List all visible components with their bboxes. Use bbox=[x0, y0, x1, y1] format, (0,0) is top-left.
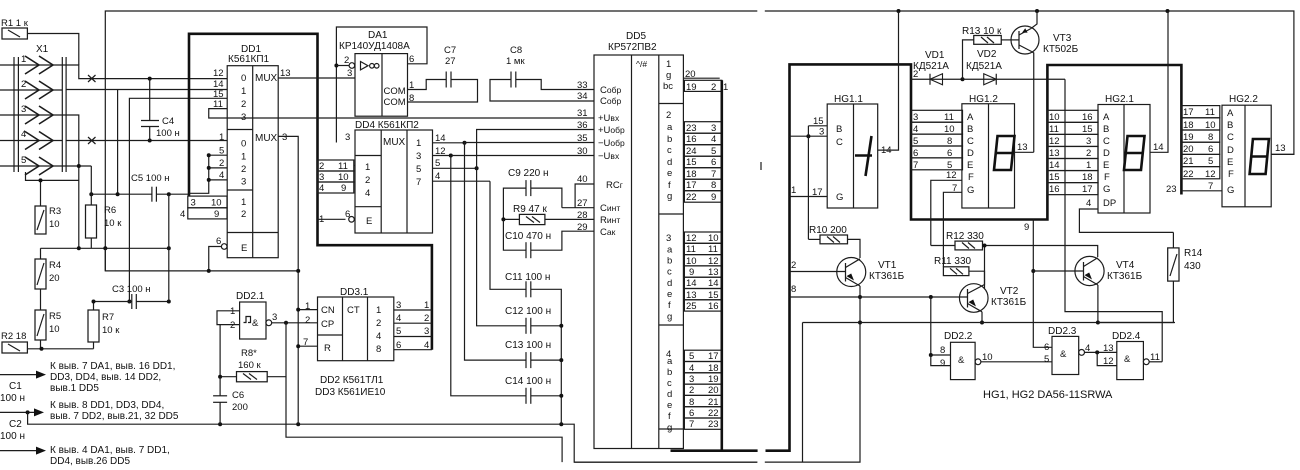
svg-text:VT3: VT3 bbox=[1053, 33, 1072, 44]
wire X1 pin4 to DD1 with break mark bbox=[66, 137, 227, 144]
svg-text:G: G bbox=[967, 185, 974, 196]
svg-text:3: 3 bbox=[345, 132, 350, 143]
HG1.1 pin 17 bbox=[790, 185, 828, 198]
svg-text:5: 5 bbox=[689, 351, 694, 362]
svg-text:F: F bbox=[968, 172, 974, 183]
svg-text:9: 9 bbox=[341, 183, 346, 194]
svg-text:10: 10 bbox=[686, 256, 697, 267]
svg-text:R2 18: R2 18 bbox=[1, 331, 26, 342]
capacitor C3 bbox=[92, 284, 171, 309]
wire VT4 base bbox=[1033, 270, 1083, 272]
chip DD3.1 counter bbox=[303, 287, 394, 361]
svg-text:2: 2 bbox=[344, 55, 349, 66]
top rail right segment bbox=[765, 9, 1294, 154]
svg-text:31: 31 bbox=[577, 108, 588, 119]
wire net to R6 bbox=[90, 166, 92, 205]
svg-text:К выв. 8 DD1, DD3, DD4,: К выв. 8 DD1, DD3, DD4, bbox=[50, 400, 164, 411]
gate DD2.1 bbox=[217, 291, 318, 339]
svg-text:c: c bbox=[667, 145, 672, 156]
svg-text:10: 10 bbox=[1049, 112, 1060, 123]
resistor R14 bbox=[1098, 232, 1203, 322]
svg-text:1: 1 bbox=[230, 306, 235, 317]
rail y462 right part bbox=[765, 323, 860, 463]
node output arrow 2 bbox=[0, 400, 179, 422]
DD1 net box 3-10 bbox=[188, 196, 227, 208]
svg-text:КТ502Б: КТ502Б bbox=[1043, 44, 1079, 55]
svg-text:13: 13 bbox=[1017, 142, 1028, 153]
svg-text:D: D bbox=[1103, 148, 1110, 159]
svg-text:8: 8 bbox=[376, 344, 381, 355]
svg-text:21: 21 bbox=[708, 397, 719, 408]
DD5 section4 segments bbox=[666, 349, 673, 434]
transistor VT4 bbox=[1075, 256, 1143, 285]
capacitor C13 bbox=[505, 340, 563, 368]
svg-text:2: 2 bbox=[689, 385, 694, 396]
svg-text:X1: X1 bbox=[36, 44, 49, 55]
svg-text:6: 6 bbox=[711, 157, 716, 168]
svg-text:12: 12 bbox=[1205, 169, 1216, 180]
svg-text:100 н: 100 н bbox=[0, 431, 25, 442]
svg-text:DD3, DD4, выв. 14 DD2,: DD3, DD4, выв. 14 DD2, bbox=[50, 372, 161, 383]
svg-text:15: 15 bbox=[1049, 172, 1060, 183]
svg-text:G: G bbox=[1103, 184, 1110, 195]
wire C5 to C3 vertical bbox=[168, 194, 170, 301]
svg-text:VT4: VT4 bbox=[1116, 260, 1135, 271]
svg-text:C: C bbox=[1227, 132, 1234, 143]
svg-text:13: 13 bbox=[708, 267, 719, 278]
svg-text:C12 100 н: C12 100 н bbox=[505, 306, 551, 317]
svg-text:6: 6 bbox=[396, 340, 401, 351]
DD5 left pin labels bbox=[577, 80, 625, 238]
svg-text:19: 19 bbox=[686, 82, 697, 93]
svg-text:R6: R6 bbox=[104, 205, 116, 216]
svg-text:COM: COM bbox=[384, 97, 406, 108]
svg-text:7: 7 bbox=[711, 169, 716, 180]
thick bus DD5 right bbox=[671, 80, 758, 450]
wire -Uvx pin30 bbox=[451, 155, 594, 157]
HG2.2 pin 7 G bbox=[1166, 181, 1222, 195]
svg-text:КТ361Б: КТ361Б bbox=[869, 271, 905, 282]
svg-text:3: 3 bbox=[424, 326, 429, 337]
svg-text:C6: C6 bbox=[232, 390, 244, 401]
svg-text:10: 10 bbox=[708, 233, 719, 244]
HG1.1 pin 14 bbox=[878, 11, 899, 156]
svg-text:5: 5 bbox=[913, 136, 918, 147]
wire junction vertical to C5 bbox=[117, 90, 119, 194]
DD5 section3 segments bbox=[666, 233, 673, 323]
svg-text:12: 12 bbox=[435, 146, 446, 157]
svg-text:25: 25 bbox=[686, 301, 697, 312]
svg-text:20: 20 bbox=[708, 385, 719, 396]
svg-text:D: D bbox=[1227, 145, 1234, 156]
svg-text:1: 1 bbox=[416, 138, 421, 149]
wire R6 bottom bbox=[90, 238, 92, 248]
svg-text:1: 1 bbox=[1086, 160, 1091, 171]
HG1.2 pin 7 G bbox=[943, 183, 962, 267]
svg-text:DD3 К561ИЕ10: DD3 К561ИЕ10 bbox=[315, 387, 386, 398]
wire DD1 mux2 output3 bbox=[278, 136, 300, 424]
diode VD2 bbox=[963, 49, 1066, 85]
svg-text:2: 2 bbox=[305, 315, 310, 326]
capacitor C2 label bbox=[0, 419, 25, 442]
svg-text:2: 2 bbox=[376, 318, 381, 329]
svg-text:C: C bbox=[967, 136, 974, 147]
svg-text:C2: C2 bbox=[9, 419, 22, 430]
svg-text:9: 9 bbox=[214, 209, 219, 220]
thick bus break continuation bbox=[766, 64, 1182, 450]
svg-text:DD2.2: DD2.2 bbox=[944, 331, 973, 342]
svg-text:10 к: 10 к bbox=[102, 325, 120, 336]
svg-text:CT: CT bbox=[347, 305, 360, 316]
resistor R4 bbox=[35, 248, 61, 310]
svg-text:35: 35 bbox=[577, 133, 588, 144]
svg-text:R11 330: R11 330 bbox=[934, 256, 972, 267]
transistor VT1 bbox=[837, 258, 905, 287]
svg-text:12: 12 bbox=[1049, 136, 1060, 147]
svg-text:11: 11 bbox=[708, 244, 718, 255]
wire DD4 out 4 bbox=[433, 171, 491, 182]
svg-text:34: 34 bbox=[577, 91, 588, 102]
svg-text:10: 10 bbox=[1205, 120, 1216, 131]
wire net14 to C13 bbox=[465, 143, 527, 360]
svg-text:C13 100 н: C13 100 н bbox=[505, 340, 551, 351]
svg-text:11: 11 bbox=[686, 244, 696, 255]
svg-text:14: 14 bbox=[1049, 160, 1060, 171]
svg-text:1: 1 bbox=[219, 132, 224, 143]
display HG2.1 bbox=[1098, 94, 1150, 213]
svg-text:MUX: MUX bbox=[255, 73, 278, 84]
DD1 section2 tie chain bbox=[189, 153, 227, 193]
svg-text:A: A bbox=[1227, 108, 1234, 119]
svg-text:выв.1 DD5: выв.1 DD5 bbox=[50, 383, 99, 394]
HG2.2 glyph bbox=[1250, 139, 1269, 174]
wire R3 top bbox=[26, 172, 79, 206]
svg-text:13: 13 bbox=[280, 68, 291, 79]
svg-text:4: 4 bbox=[180, 209, 185, 220]
svg-text:B: B bbox=[1103, 124, 1109, 135]
svg-text:0: 0 bbox=[241, 139, 246, 150]
svg-text:C14 100 н: C14 100 н bbox=[505, 376, 551, 387]
svg-text:C: C bbox=[1103, 136, 1110, 147]
DD5 section1 digit bbox=[663, 59, 728, 93]
svg-text:5: 5 bbox=[435, 158, 440, 169]
DD4 net box 3-10 bbox=[318, 171, 354, 183]
svg-text:2: 2 bbox=[913, 69, 918, 80]
svg-text:выв. 7 DD2, выв.21, 32 DD5: выв. 7 DD2, выв.21, 32 DD5 bbox=[50, 411, 179, 422]
svg-text:3: 3 bbox=[711, 123, 716, 134]
svg-text:12: 12 bbox=[708, 256, 719, 267]
svg-text:11: 11 bbox=[1049, 124, 1059, 135]
X1 pin 4 bbox=[0, 129, 62, 150]
svg-text:VT1: VT1 bbox=[878, 260, 897, 271]
svg-text:9: 9 bbox=[689, 267, 694, 278]
svg-text:4: 4 bbox=[424, 340, 429, 351]
wire R1 right to X1 pin1 bbox=[27, 34, 78, 66]
wire R2 row bbox=[27, 347, 93, 351]
svg-text:27: 27 bbox=[445, 56, 456, 67]
svg-text:10: 10 bbox=[49, 219, 60, 230]
svg-text:2: 2 bbox=[666, 110, 671, 121]
svg-text:f: f bbox=[668, 411, 671, 422]
resistor R12 bbox=[931, 231, 1098, 257]
svg-text:1: 1 bbox=[376, 305, 381, 316]
svg-text:4: 4 bbox=[21, 129, 26, 140]
svg-text:7: 7 bbox=[913, 160, 918, 171]
svg-text:a: a bbox=[667, 122, 673, 133]
svg-text:3: 3 bbox=[347, 68, 352, 79]
wire VT2 emitter down bbox=[980, 312, 984, 325]
HG2.1 pin boxes bbox=[1047, 110, 1098, 195]
svg-text:DD2.4: DD2.4 bbox=[1112, 331, 1141, 342]
transistor VT2 bbox=[959, 244, 1026, 313]
svg-text:8: 8 bbox=[689, 397, 694, 408]
svg-text:17: 17 bbox=[708, 351, 719, 362]
svg-text:13: 13 bbox=[1275, 143, 1286, 154]
svg-text:КТ361Б: КТ361Б bbox=[1107, 271, 1143, 282]
svg-text:d: d bbox=[667, 278, 672, 289]
resistor R3 bbox=[35, 206, 61, 234]
svg-text:e: e bbox=[667, 400, 672, 411]
svg-text:b: b bbox=[667, 134, 672, 145]
wire DD4 out 5 bbox=[433, 158, 479, 170]
DD4 net box 2-11 bbox=[318, 160, 356, 172]
svg-text:HG2.1: HG2.1 bbox=[1105, 94, 1134, 105]
svg-text:^/#: ^/# bbox=[636, 59, 647, 69]
svg-text:B: B bbox=[836, 124, 842, 135]
svg-text:8: 8 bbox=[711, 180, 716, 191]
ground rail y424 bbox=[28, 412, 758, 462]
svg-text:R1 1 к: R1 1 к bbox=[1, 18, 29, 29]
svg-text:8: 8 bbox=[940, 345, 945, 356]
svg-text:К выв. 7 DA1, выв. 16 DD1,: К выв. 7 DA1, выв. 16 DD1, bbox=[50, 361, 175, 372]
chip DD5 ADC bbox=[594, 31, 683, 449]
svg-text:3: 3 bbox=[689, 374, 694, 385]
wire DD1 pin15 bbox=[129, 98, 227, 301]
svg-text:1: 1 bbox=[241, 197, 246, 208]
svg-text:3: 3 bbox=[396, 300, 401, 311]
svg-text:3: 3 bbox=[416, 151, 421, 162]
resistor R8 bbox=[218, 321, 286, 381]
HG1.2 pin 13 bbox=[1015, 142, 1034, 153]
X1 pin 2 bbox=[0, 79, 62, 99]
wire DD3.1 out 3 bbox=[394, 326, 432, 337]
svg-text:3: 3 bbox=[282, 132, 287, 143]
svg-text:DP: DP bbox=[1103, 198, 1116, 209]
svg-text:14: 14 bbox=[435, 133, 446, 144]
svg-text:18: 18 bbox=[1183, 120, 1194, 131]
resistor R13 bbox=[962, 26, 1013, 79]
svg-text:2: 2 bbox=[365, 175, 370, 186]
svg-text:b: b bbox=[667, 367, 672, 378]
svg-text:DD2.3: DD2.3 bbox=[1048, 326, 1077, 337]
svg-text:4: 4 bbox=[376, 331, 381, 342]
HG1.1 pin 15 bbox=[808, 116, 827, 127]
HG2.2 pin 13 bbox=[1271, 143, 1294, 154]
svg-text:3: 3 bbox=[913, 112, 918, 123]
svg-text:R3: R3 bbox=[49, 206, 61, 217]
svg-text:C7: C7 bbox=[444, 45, 456, 56]
svg-text:DD4, выв.26 DD5: DD4, выв.26 DD5 bbox=[50, 456, 130, 467]
svg-text:+Uобр: +Uобр bbox=[598, 125, 625, 136]
svg-text:3: 3 bbox=[1086, 136, 1091, 147]
svg-text:11: 11 bbox=[944, 112, 954, 123]
svg-text:Rинт: Rинт bbox=[600, 215, 620, 226]
svg-text:bc: bc bbox=[663, 81, 673, 92]
svg-text:12: 12 bbox=[213, 68, 224, 79]
svg-text:18: 18 bbox=[1082, 172, 1093, 183]
svg-text:5: 5 bbox=[1044, 354, 1049, 365]
svg-text:6: 6 bbox=[1044, 342, 1049, 353]
svg-text:R5: R5 bbox=[49, 311, 61, 322]
svg-text:1: 1 bbox=[424, 300, 429, 311]
svg-text:e: e bbox=[667, 168, 672, 179]
svg-text:100 н: 100 н bbox=[0, 393, 25, 404]
display HG1.2 bbox=[962, 94, 1015, 208]
svg-text:COM: COM bbox=[384, 86, 406, 97]
svg-text:12: 12 bbox=[946, 170, 957, 181]
svg-text:c: c bbox=[667, 378, 672, 389]
capacitor C10 bbox=[503, 219, 593, 258]
svg-text:R4: R4 bbox=[49, 260, 61, 271]
svg-text:430: 430 bbox=[1184, 261, 1201, 272]
wire X1 pin1 to DD1 pin12 with break mark bbox=[62, 65, 227, 82]
HG1.2 pin 12 F bbox=[931, 170, 962, 246]
bus continuation tick bbox=[760, 162, 762, 170]
svg-text:40: 40 bbox=[577, 174, 588, 185]
svg-text:4: 4 bbox=[1086, 198, 1091, 209]
resistor R1 bbox=[1, 18, 29, 39]
svg-text:23: 23 bbox=[708, 419, 719, 430]
svg-text:E: E bbox=[1227, 157, 1233, 168]
svg-text:RCг: RCг bbox=[606, 180, 623, 191]
wire DD3.1 CN R ties bbox=[296, 308, 317, 349]
svg-text:VD2: VD2 bbox=[977, 49, 997, 60]
svg-text:КР572ПВ2: КР572ПВ2 bbox=[608, 42, 657, 53]
svg-text:3: 3 bbox=[666, 233, 671, 244]
svg-text:Сак: Сак bbox=[600, 227, 616, 238]
svg-text:10 к: 10 к bbox=[104, 218, 122, 229]
svg-text:21: 21 bbox=[1183, 156, 1194, 167]
svg-text:g: g bbox=[667, 423, 672, 434]
svg-text:17: 17 bbox=[1183, 107, 1194, 118]
svg-text:18: 18 bbox=[708, 363, 719, 374]
svg-text:22: 22 bbox=[686, 192, 697, 203]
svg-text:20: 20 bbox=[49, 273, 60, 284]
gate DD2.4 bbox=[1097, 331, 1162, 380]
svg-text:10: 10 bbox=[338, 172, 349, 183]
wire VT1 emitter down bbox=[858, 286, 862, 325]
DD5 section4 pin boxes bbox=[684, 350, 721, 430]
node output arrow 1 bbox=[0, 361, 175, 394]
resistor R11 bbox=[934, 256, 985, 289]
svg-text:14: 14 bbox=[686, 278, 697, 289]
svg-text:1: 1 bbox=[241, 86, 246, 97]
svg-text:HG1.1: HG1.1 bbox=[834, 94, 863, 105]
svg-text:8: 8 bbox=[791, 284, 796, 295]
svg-text:2: 2 bbox=[230, 320, 235, 331]
svg-text:R: R bbox=[324, 343, 331, 354]
svg-text:C5 100 н: C5 100 н bbox=[131, 173, 170, 184]
bottom rail thin right bbox=[574, 461, 757, 463]
svg-text:16: 16 bbox=[1049, 184, 1060, 195]
svg-text:B: B bbox=[967, 124, 973, 135]
wire DD1 pin11 +Uvx net bbox=[209, 109, 594, 118]
wire DD1 pin13 to DA1 pin3 bbox=[278, 77, 355, 79]
svg-text:4: 4 bbox=[689, 363, 694, 374]
svg-text:24: 24 bbox=[686, 146, 697, 157]
HG2.1 pin 14 bbox=[1150, 11, 1168, 153]
svg-text:d: d bbox=[667, 157, 672, 168]
svg-text:R10 200: R10 200 bbox=[809, 225, 847, 236]
resistor R7 bbox=[88, 302, 120, 349]
svg-text:9: 9 bbox=[940, 358, 945, 369]
svg-text:E: E bbox=[1103, 160, 1109, 171]
svg-text:C1: C1 bbox=[9, 381, 22, 392]
svg-text:f: f bbox=[668, 180, 671, 191]
svg-text:1: 1 bbox=[666, 59, 671, 70]
svg-text:1: 1 bbox=[305, 301, 310, 312]
svg-text:14: 14 bbox=[1153, 142, 1164, 153]
wire X1 pin3 tap bbox=[62, 115, 79, 248]
svg-text:A: A bbox=[967, 112, 974, 123]
svg-text:4: 4 bbox=[913, 124, 918, 135]
capacitor C7 bbox=[408, 45, 478, 102]
svg-text:30: 30 bbox=[577, 146, 588, 157]
svg-text:5: 5 bbox=[1208, 156, 1213, 167]
HG2.1 glyph bbox=[1124, 136, 1145, 170]
svg-text:27: 27 bbox=[577, 198, 588, 209]
wire net5 to C12 bbox=[477, 168, 526, 325]
svg-text:e: e bbox=[667, 289, 672, 300]
wire -Uobr pin35 bbox=[465, 142, 594, 144]
svg-text:1: 1 bbox=[791, 185, 796, 196]
svg-text:HG1, HG2 DA56-11SRWA: HG1, HG2 DA56-11SRWA bbox=[983, 389, 1113, 401]
wire left drop to bottom rail bbox=[802, 323, 804, 463]
svg-text:0: 0 bbox=[241, 73, 246, 84]
svg-text:9: 9 bbox=[1024, 222, 1029, 233]
svg-text:E: E bbox=[241, 243, 247, 254]
svg-text:20: 20 bbox=[1183, 144, 1194, 155]
svg-text:3: 3 bbox=[191, 198, 196, 209]
svg-text:Собр: Собр bbox=[600, 96, 621, 107]
svg-text:33: 33 bbox=[577, 80, 588, 91]
chip DD4 bbox=[345, 120, 433, 233]
svg-text:CP: CP bbox=[321, 319, 334, 330]
HG2.2 pin boxes bbox=[1181, 106, 1219, 180]
wire osc to bottom rail bbox=[286, 377, 562, 462]
svg-text:G: G bbox=[1227, 185, 1234, 196]
wire net8 VT2 base bbox=[790, 284, 968, 299]
wire net12 to C14 bbox=[451, 156, 526, 396]
svg-text:C4: C4 bbox=[162, 116, 174, 127]
svg-text:R9 47 к: R9 47 к bbox=[513, 204, 547, 215]
svg-text:36: 36 bbox=[577, 120, 588, 131]
resistor R6 bbox=[86, 205, 123, 238]
capacitor C14 bbox=[505, 376, 563, 404]
svg-text:15: 15 bbox=[708, 290, 719, 301]
wire DD4 out 14 bbox=[433, 133, 467, 145]
svg-text:2: 2 bbox=[1086, 148, 1091, 159]
svg-text:13: 13 bbox=[1049, 148, 1060, 159]
svg-text:&: & bbox=[1060, 349, 1067, 360]
svg-text:2: 2 bbox=[424, 313, 429, 324]
X1 pin 3 bbox=[0, 104, 62, 124]
thick bus DD1 loop bbox=[189, 34, 432, 350]
resistor R9 bbox=[501, 204, 593, 225]
DD5 section2 pin boxes bbox=[684, 122, 721, 203]
wire DD4 out 12 bbox=[433, 146, 453, 158]
svg-text:23: 23 bbox=[686, 123, 697, 134]
